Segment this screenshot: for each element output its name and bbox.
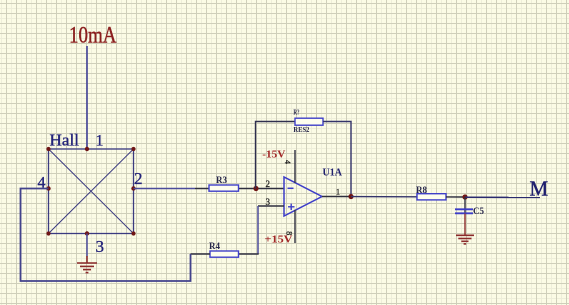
resistor R4 [210, 251, 239, 257]
wire output to R8 [351, 196, 417, 198]
svg-text:R3: R3 [216, 175, 227, 185]
resistor R8 [417, 194, 446, 200]
capacitor C5 [455, 209, 473, 213]
svg-text:-15V: -15V [262, 150, 286, 161]
svg-text:RES2: RES2 [293, 126, 309, 134]
svg-text:3: 3 [96, 237, 105, 256]
svg-text:1: 1 [96, 133, 104, 150]
wire junction to M [465, 196, 540, 198]
svg-text:R?: R? [293, 109, 300, 117]
wire op-amp pin 3 stub [258, 205, 284, 207]
op-amp minus symbol [288, 187, 294, 189]
wire R4 left lead [191, 253, 211, 255]
resistor R3 [209, 185, 239, 191]
wire op-amp output to junction [322, 196, 351, 198]
junction node at op-amp inverting input [253, 186, 258, 191]
feedback wire up-left [256, 122, 296, 189]
svg-text:R4: R4 [209, 241, 220, 251]
resistor R? RES2 (feedback) [295, 118, 323, 125]
svg-text:Hall: Hall [50, 130, 80, 149]
op-amp plus symbol [288, 204, 295, 210]
svg-text:C5: C5 [473, 206, 484, 216]
svg-text:1: 1 [336, 188, 340, 197]
svg-text:U1A: U1A [323, 168, 343, 179]
svg-text:2: 2 [266, 179, 271, 189]
wire Hall pin 2 to R3 (blue segment) [134, 188, 196, 190]
wire C5 to ground [464, 214, 466, 236]
op-amp power pin 4 line [294, 150, 296, 183]
op-amp U1A triangle [284, 177, 322, 216]
wire 10mA source down to Hall pin 1 [86, 46, 88, 149]
svg-text:2: 2 [134, 169, 143, 188]
wire R4 right lead [239, 253, 259, 255]
junction node at output [348, 194, 353, 199]
ground GND under C5 [456, 235, 474, 244]
wire R8 to junction [446, 196, 465, 198]
Hall corner dots [46, 147, 135, 236]
Hall pin connection dots [46, 147, 135, 236]
ground GND under Hall [77, 256, 97, 273]
junction node at C5 [462, 194, 467, 199]
svg-text:M: M [530, 176, 549, 200]
Hall element body (square with diagonals) [49, 149, 134, 234]
svg-text:+15V: +15V [265, 234, 294, 245]
wire R3 leads and to op-amp pin 2 (dark segment) [195, 188, 284, 190]
svg-text:4: 4 [283, 160, 292, 164]
feedback wire right-down to output [323, 122, 351, 197]
wire junction down to C5 [464, 197, 466, 214]
svg-text:R8: R8 [416, 185, 427, 195]
wire Hall pin 3 to ground [86, 234, 88, 257]
svg-text:10mA: 10mA [69, 23, 117, 48]
wire pin3 down to R4 row [257, 206, 259, 254]
wire bottom return path to Hall pin 4 [21, 189, 191, 282]
op-amp power pin 8 line [294, 210, 296, 243]
